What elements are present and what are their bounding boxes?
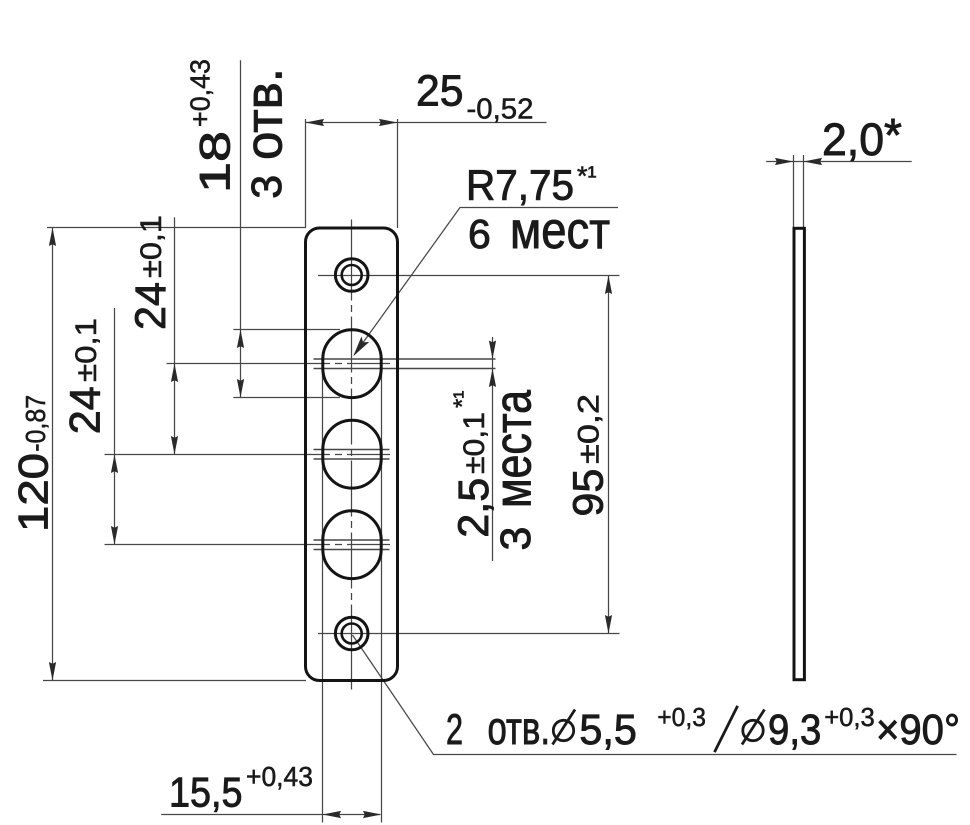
centerline top hole horizontal (318, 275, 620, 277)
arrow 2,5 lower (489, 369, 496, 388)
arrow 25 left (306, 119, 325, 126)
dimension line 18 (240, 60, 242, 397)
svg-text:-0,52: -0,52 (467, 94, 534, 126)
arrow 2,0 right (804, 158, 823, 165)
centerline bottom hole horizontal (318, 633, 620, 635)
arrow 24a bottom (171, 436, 178, 455)
obround hole 3 (323, 511, 381, 579)
svg-text:±0,2: ±0,2 (573, 394, 606, 464)
svg-text:*¹: *¹ (449, 391, 476, 408)
arc-center line hole1 upper (314, 358, 496, 360)
extension line 15,5 right (381, 369, 383, 823)
svg-text:+0,3: +0,3 (824, 702, 875, 732)
svg-text:места: места (485, 390, 543, 508)
extension line side view left (793, 155, 795, 227)
extension line hole1 top (233, 329, 340, 331)
dimension line 2,5 vertical (492, 337, 494, 561)
extension line 15,5 left (322, 359, 324, 823)
svg-text:24: 24 (62, 386, 110, 434)
vertical centerline of plate holes (351, 220, 353, 690)
arrow 24b top (111, 455, 118, 474)
svg-text:+0,43: +0,43 (246, 761, 313, 792)
arrow 18 bottom (237, 379, 244, 398)
extension line top of 120 dim (47, 227, 306, 229)
svg-text:2: 2 (446, 707, 463, 754)
top countersunk hole inner (342, 265, 362, 285)
arrow 15,5 right (363, 811, 382, 818)
svg-text:95: 95 (564, 469, 612, 517)
diameter symbol 1 (553, 710, 576, 745)
dimension line 15,5 (161, 814, 380, 816)
svg-text:+0,3: +0,3 (657, 702, 706, 732)
arc-center line hole2 upper (314, 449, 390, 451)
arrow 15,5 left (323, 811, 342, 818)
svg-text:±0,1: ±0,1 (135, 215, 168, 278)
dimension line 120 (52, 228, 54, 681)
arrow 24b bottom (111, 526, 118, 545)
svg-text:6: 6 (468, 211, 491, 257)
arrow 120 bottom (49, 662, 56, 681)
arc-center line hole1 lower (314, 368, 496, 370)
diameter symbol 2 (742, 710, 765, 745)
svg-text:5,5: 5,5 (579, 707, 637, 754)
svg-text:2,0: 2,0 (822, 114, 884, 165)
arrow 95 bottom (605, 615, 612, 634)
arrow 18 top (237, 330, 244, 349)
svg-text:×90°: ×90° (876, 707, 960, 754)
arrow 2,0 left (775, 158, 794, 165)
svg-text:25: 25 (416, 67, 464, 116)
arc-center line hole3 lower (314, 549, 390, 551)
side view plate section (794, 228, 804, 679)
svg-text:+0,43: +0,43 (185, 59, 216, 127)
bottom countersunk hole inner (342, 624, 362, 644)
dimension line 25 (306, 122, 547, 124)
big slash (715, 706, 738, 752)
centerline hole3 horizontal (105, 544, 391, 546)
leader line countersink note (353, 635, 957, 755)
svg-text:±0,1: ±0,1 (70, 318, 103, 382)
obround hole 1 (323, 330, 381, 398)
leader line R7,75 (355, 208, 619, 355)
dimension line 24 first (hole1-hole2) (174, 217, 176, 454)
arrow 24a top (171, 364, 178, 383)
svg-text:9,3: 9,3 (768, 707, 821, 754)
svg-text:*: * (884, 109, 902, 161)
svg-text:120: 120 (10, 453, 57, 532)
dimension line 24 second (hole2-hole3) (114, 308, 116, 545)
extension line bottom of 120 dim (43, 680, 306, 682)
arrow 95 top (605, 276, 612, 295)
obround hole 2 (323, 420, 381, 488)
arrow 25 right (379, 119, 398, 126)
svg-text:-0,87: -0,87 (20, 395, 51, 452)
svg-text:мест: мест (510, 202, 610, 260)
arc-center line hole3 upper (314, 539, 390, 541)
svg-text:24: 24 (127, 282, 175, 330)
extension line 25 left (305, 119, 307, 228)
leader arrowhead R7,75 (349, 336, 369, 359)
extension line side view right (803, 155, 805, 227)
svg-text:отв.: отв. (236, 68, 294, 160)
svg-text:3: 3 (492, 527, 540, 551)
plate outline front view (306, 228, 398, 681)
svg-text:3: 3 (243, 175, 291, 199)
dimension line 95 (608, 276, 610, 634)
svg-text:*¹: *¹ (577, 161, 597, 191)
arc-center line hole2 lower (314, 458, 390, 460)
extension line 25 right (397, 119, 399, 228)
svg-text:отв.: отв. (488, 702, 551, 754)
bottom countersunk hole outer (335, 617, 368, 650)
svg-text:15,5: 15,5 (169, 769, 243, 816)
centerline hole1 horizontal (167, 363, 391, 365)
extension line hole1 bottom (233, 397, 340, 399)
top countersunk hole outer (335, 259, 368, 292)
svg-text:18: 18 (192, 131, 240, 193)
dimension line 2,0 side view (766, 161, 912, 163)
centerline hole2 horizontal (105, 454, 391, 456)
arrow 2,5 upper (489, 341, 496, 360)
arrow 120 top (49, 228, 56, 247)
